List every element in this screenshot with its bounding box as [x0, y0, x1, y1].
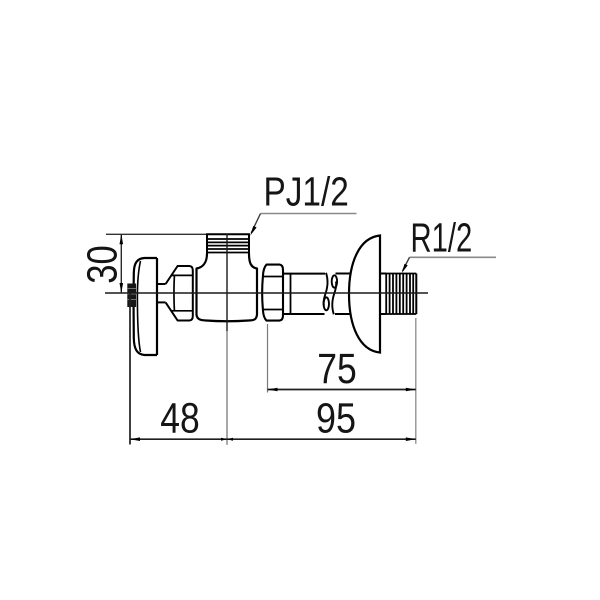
dim 48 left extension line (wall face) — [129, 294, 131, 445]
valve body — [197, 254, 258, 322]
outlet pipe (left of break) — [283, 274, 325, 314]
dim 48/95 dimension line — [130, 438, 416, 440]
dim 48 right arrow / dim 95 left arrow (shared at valve axis) — [221, 438, 227, 441]
outlet pipe (right of break) — [335, 274, 352, 315]
dim 30 arrow down — [120, 283, 124, 293]
outlet nut facet lines — [263, 276, 283, 278]
leader PJ1/2 underline — [261, 213, 357, 215]
dim 30 arrow up — [120, 234, 124, 244]
dim 30 vertical dimension line — [120, 234, 122, 293]
vertical valve axis extension to dimension — [226, 331, 228, 445]
outlet hex nut — [262, 265, 283, 321]
dim 75/95 right extension line (thread end) — [415, 318, 417, 444]
dim 75 dimension line — [268, 389, 416, 391]
thread end face — [415, 274, 417, 315]
packing nut middle facet edge — [173, 275, 175, 310]
svg-text:48: 48 — [160, 395, 200, 442]
pipe break squiggle left — [324, 273, 329, 311]
pipe between dome and thread — [380, 274, 386, 315]
left wall flange (escutcheon) outline — [134, 258, 158, 355]
flange inner lip curve — [137, 261, 140, 352]
R1/2 male thread ridges — [386, 274, 416, 315]
dim 95 right arrow — [406, 437, 416, 441]
valve top male thread PJ1/2 — [206, 234, 250, 254]
leader R1/2 arrow — [402, 264, 408, 273]
dim 75 left extension line (from nut corner) — [267, 324, 269, 393]
dim 48 left arrow — [130, 437, 140, 441]
dim 30 top extension line — [106, 233, 206, 235]
short cylinder between flange and packing nut — [157, 284, 166, 302]
packing nut facet lines — [171, 274, 193, 276]
packing nut (hex silhouette) — [166, 266, 193, 321]
pipe break squiggle right — [332, 275, 337, 314]
horizontal center axis line — [105, 292, 428, 294]
wall thread hatch (pipe stub in wall) — [127, 284, 136, 308]
flange right face — [156, 258, 158, 355]
leader R1/2 diagonal — [403, 257, 410, 271]
vertical valve axis — [226, 234, 228, 332]
dim 75 right arrow — [406, 388, 416, 392]
svg-text:75: 75 — [317, 346, 357, 393]
svg-text:R1/2: R1/2 — [411, 214, 473, 260]
leader PJ1/2 diagonal — [251, 214, 260, 234]
svg-text:PJ1/2: PJ1/2 — [264, 169, 349, 215]
svg-text:30: 30 — [80, 245, 127, 284]
leader R1/2 underline — [410, 256, 497, 258]
svg-text:95: 95 — [316, 395, 356, 442]
dim 75 left arrow — [268, 388, 278, 392]
leader PJ1/2 arrow — [250, 226, 256, 236]
right dome escutcheon — [349, 236, 380, 353]
